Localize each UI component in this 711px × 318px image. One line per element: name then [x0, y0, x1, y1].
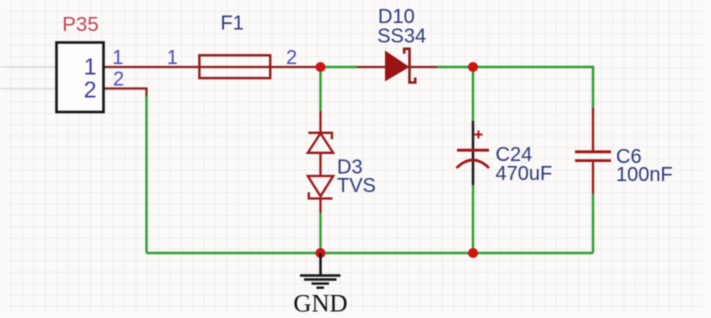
wire pin2 stub from connector: [104, 89, 147, 98]
TVS D3 top zener bar: [308, 133, 332, 139]
capacitor C6 bottom plate: [575, 159, 611, 162]
wire C24 bottom (green): [472, 185, 474, 253]
TVS D3 bottom triangle: [308, 176, 333, 196]
ground bar 1: [300, 274, 341, 276]
svg-text:1: 1: [167, 47, 178, 69]
ground stem: [319, 253, 322, 275]
capacitor C24 curved plate: [457, 160, 490, 168]
capacitor C6 bottom lead: [592, 161, 594, 194]
svg-text:2: 2: [84, 77, 97, 103]
svg-text:2: 2: [286, 47, 297, 69]
TVS D3 top triangle: [308, 133, 333, 153]
wire bottom rail (green): [147, 252, 594, 254]
svg-text:TVS: TVS: [337, 175, 376, 197]
wire TVS to bottom rail (green): [319, 213, 321, 254]
faint sheet boundary line left of connector (pin2 row): [0, 88, 56, 90]
diode D10 right lead: [410, 66, 438, 68]
svg-text:SS34: SS34: [377, 26, 426, 48]
svg-text:2: 2: [113, 69, 124, 91]
wire C24 top (green): [472, 67, 474, 121]
wire fuse to junction: [270, 66, 321, 68]
wire junction to diode (green): [321, 66, 358, 68]
TVS D3 bottom zener bar: [309, 192, 333, 198]
diode D10 left lead: [357, 66, 386, 68]
svg-text:F1: F1: [221, 13, 244, 35]
capacitor C24 top plate: [457, 149, 489, 152]
wire diode to right corner (green): [437, 66, 593, 68]
diode D10 triangle: [386, 52, 409, 81]
junction dot below C24: [468, 248, 478, 258]
capacitor C24 plus sign: [475, 131, 483, 139]
diode D10 schottky cathode bar: [404, 49, 415, 83]
junction dot at GND: [316, 248, 326, 258]
capacitor C6 top plate: [575, 150, 611, 153]
ground bar 2: [304, 278, 337, 280]
capacitor C6 top lead: [592, 108, 594, 151]
fuse F1 body: [199, 55, 270, 78]
ground bar 3: [312, 282, 330, 284]
wire pin1 connector to fuse: [104, 66, 201, 68]
wire right rail upper (green): [592, 66, 594, 108]
wire left rail vertical (green): [145, 96, 147, 253]
ground bar 4: [317, 287, 325, 289]
wire C6 bottom (green): [592, 194, 594, 253]
wire junction down to TVS (green): [319, 67, 321, 111]
junction dot at fuse output: [316, 62, 326, 72]
TVS D3 bottom lead: [319, 199, 321, 213]
svg-text:100nF: 100nF: [616, 164, 673, 186]
svg-text:P35: P35: [62, 13, 98, 36]
fuse F1 through line: [199, 66, 270, 68]
connector P35 body: [57, 43, 104, 113]
TVS D3 middle link: [319, 153, 321, 176]
svg-text:470uF: 470uF: [496, 163, 553, 185]
TVS D3 top lead: [319, 111, 321, 133]
junction dot above C24: [468, 62, 478, 72]
capacitor C24 pin (black): [472, 121, 475, 185]
svg-text:1: 1: [112, 47, 123, 69]
faint sheet boundary line left of connector (pin1 row): [0, 66, 56, 68]
svg-text:GND: GND: [293, 291, 347, 318]
